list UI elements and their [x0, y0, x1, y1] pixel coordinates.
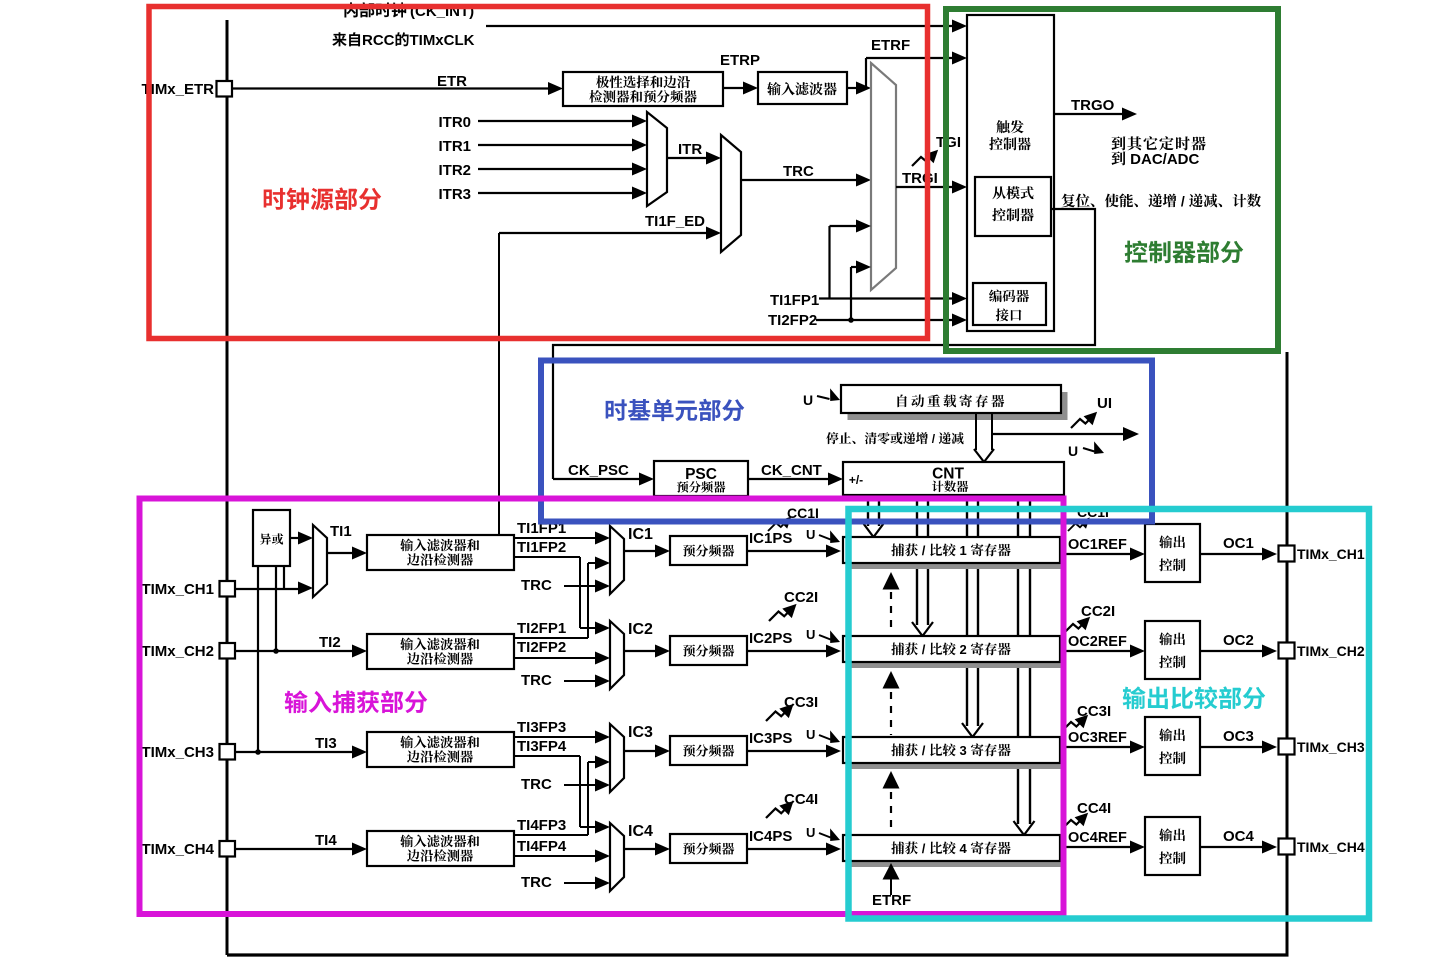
label to DAC ADC [1112, 151, 1126, 165]
wire OC1REF [1060, 553, 1132, 555]
svg-text:OC1: OC1 [1223, 535, 1254, 552]
svg-text:CNT: CNT [932, 466, 964, 483]
svg-text:DAC/ADC: DAC/ADC [1126, 151, 1199, 168]
wire XOR input from CH1 [283, 566, 285, 589]
svg-text:OC3REF: OC3REF [1068, 730, 1127, 746]
wire OC2REF [1060, 650, 1132, 652]
dashed capture arrow CCR4 to CCR3 [890, 792, 892, 833]
wire OC2 [1200, 650, 1264, 652]
svg-text:TI4FP3: TI4FP3 [517, 817, 566, 834]
svg-text:TI1FP1: TI1FP1 [770, 292, 819, 309]
wire TI1FP1 [514, 537, 597, 539]
svg-text:TI1F_ED: TI1F_ED [645, 213, 705, 230]
interrupt arrow CC4I left [766, 801, 794, 818]
frame input capture section [140, 499, 1064, 915]
wire update event UI [992, 433, 1123, 435]
block output control 2 [1145, 621, 1200, 679]
title clock source section [264, 188, 286, 210]
wire CK_INT [486, 25, 954, 27]
svg-text:TI2FP2: TI2FP2 [517, 639, 566, 656]
wire TI1FP1 to trigger mux and encoder [819, 297, 954, 299]
svg-text:TRGI: TRGI [902, 170, 938, 187]
svg-text:TRC: TRC [521, 874, 552, 891]
svg-text:/: / [1177, 193, 1189, 209]
interrupt arrow CC2I right [1064, 617, 1090, 633]
block prescaler 4 [670, 834, 747, 863]
title input capture section [285, 690, 308, 713]
block slave mode controller [975, 177, 1051, 236]
mux trigger selector TRGI [871, 63, 896, 290]
svg-text:ITR1: ITR1 [438, 138, 471, 155]
pin TIMx_CH1 right [1279, 546, 1295, 562]
block capture/compare register 2 [843, 636, 1060, 662]
svg-text:TIMx_CH2: TIMx_CH2 [141, 643, 214, 660]
svg-text:TI1FP2: TI1FP2 [517, 539, 566, 556]
svg-text:U: U [806, 727, 815, 742]
svg-text:IC4: IC4 [628, 823, 653, 840]
interrupt arrow CC1I right [1068, 518, 1090, 532]
wire TI1FP2 cross down [514, 556, 580, 558]
wire ITR2 [478, 168, 634, 170]
wire TRC row1 [564, 585, 597, 587]
wire ITR [667, 157, 708, 159]
frame clock source section [149, 7, 928, 339]
svg-text:TI2: TI2 [319, 634, 341, 651]
block prescaler 2 [670, 636, 747, 665]
block capture/compare register 4 shadow [848, 841, 1065, 867]
pin TIMx_CH4 [220, 841, 236, 857]
junction TI2FP2 [848, 317, 854, 323]
wire CK_PSC [553, 478, 641, 480]
svg-text:U: U [806, 627, 815, 642]
block prescaler 1 [670, 536, 747, 565]
wire TI2 [235, 650, 354, 652]
block capture/compare register 3 shadow [848, 743, 1065, 769]
svg-text:ITR0: ITR0 [438, 114, 471, 131]
block input filter and edge detector 4 [367, 831, 514, 866]
block CNT counter [843, 462, 1064, 495]
wire XOR input from CH3 [257, 566, 259, 752]
svg-text:OC2: OC2 [1223, 632, 1254, 649]
svg-text:4: 4 [956, 841, 970, 856]
svg-text:OC3: OC3 [1223, 728, 1254, 745]
interrupt arrow CC2I left [769, 604, 797, 621]
svg-text:CK_PSC: CK_PSC [568, 462, 629, 479]
svg-text:U: U [1068, 443, 1078, 459]
wire CNT to CCR2 double rail [916, 495, 918, 625]
wire TI1 from CH1 [235, 588, 300, 590]
svg-text:OC4REF: OC4REF [1068, 830, 1127, 846]
svg-text:PSC: PSC [685, 466, 717, 483]
wire auto-reload to CNT double arrow [975, 413, 977, 450]
block trigger controller [967, 15, 1054, 331]
block encoder interface [973, 283, 1046, 325]
title time base section [606, 399, 627, 420]
arrow CNT to CCR4 [1014, 821, 1035, 835]
svg-text:TIMx_CH2: TIMx_CH2 [1297, 643, 1365, 659]
block output control 3 [1145, 717, 1200, 775]
interrupt arrow CC4I right [1062, 813, 1088, 829]
svg-text:TIMx_ETR: TIMx_ETR [141, 81, 214, 98]
pin TIMx_CH4 right [1279, 839, 1295, 855]
wire slave mode controller to counter [553, 209, 1095, 479]
block input filter and edge detector 3 [367, 732, 514, 767]
pin TIMx_CH3 [220, 744, 236, 760]
wire XOR output [290, 537, 300, 539]
svg-text:UI: UI [1097, 395, 1112, 412]
block output control 1 [1145, 524, 1200, 582]
wire ITR0 [478, 120, 634, 122]
pin TIMx_CH1 [220, 581, 236, 597]
svg-text:/: / [918, 543, 929, 558]
wire ITR3 [478, 192, 634, 194]
svg-text:U: U [803, 392, 813, 408]
label internal clock CK_INT [344, 2, 357, 17]
block input filter and edge detector 2 [367, 634, 514, 669]
svg-text:TI1: TI1 [330, 523, 352, 540]
bottom bus line [227, 953, 1289, 956]
wire CNT to CCR3 double rail [966, 495, 968, 726]
wire CNT to CCR4 double rail [1017, 495, 1019, 824]
svg-text:TIMx_CH4: TIMx_CH4 [1297, 839, 1365, 855]
label stop clear or up down [826, 432, 839, 444]
svg-text:TI2FP2: TI2FP2 [768, 312, 817, 329]
svg-text:TI3FP3: TI3FP3 [517, 719, 566, 736]
svg-text:2: 2 [956, 642, 970, 657]
interrupt arrow CC1I left [768, 517, 791, 531]
mux IC4 selector [610, 823, 624, 891]
pin TIMx_CH2 [220, 643, 236, 659]
wire IC3PS [747, 750, 828, 752]
wire ETR [232, 87, 550, 89]
block capture/compare register 3 [843, 737, 1060, 763]
wire TI1F_ED [499, 232, 708, 234]
svg-text:/: / [918, 642, 929, 657]
svg-text:RCC: RCC [362, 32, 395, 49]
wire IC4 [624, 848, 657, 850]
svg-text:TRC: TRC [521, 672, 552, 689]
wire TI1F_ED tap down to TI1 edge detector [498, 233, 500, 538]
pin TIMx_ETR [217, 81, 233, 97]
block input filter and edge detector 1 [367, 535, 514, 570]
wire OC4REF [1060, 846, 1132, 848]
wire CNT to CCR1 double rail [867, 495, 869, 526]
svg-text:IC2: IC2 [628, 621, 653, 638]
svg-text:CC4I: CC4I [1077, 800, 1111, 817]
title controller section [1125, 241, 1148, 263]
wire OC3 [1200, 746, 1264, 748]
arrow CNT to CCR2 [912, 622, 933, 636]
dashed capture arrow CCR3 to CCR2 [890, 692, 892, 735]
interrupt arrow CC3I right [1062, 715, 1088, 731]
wire TI3FP4 cross down [514, 755, 580, 757]
dashed capture arrow CCR2 to CCR1 [890, 592, 892, 634]
wire TRC row4 [564, 882, 597, 884]
block polarity selection edge detector prescaler [563, 72, 723, 106]
svg-text:TRC: TRC [521, 776, 552, 793]
svg-text:CC2I: CC2I [1081, 603, 1115, 620]
block PSC prescaler [654, 461, 748, 496]
label reset enable up down count [1062, 194, 1075, 208]
svg-text:TIMx_CH3: TIMx_CH3 [1297, 739, 1365, 755]
wire XOR input from CH2 [275, 566, 277, 651]
svg-text:TI4FP4: TI4FP4 [517, 838, 567, 855]
wire TRGO [1054, 113, 1124, 115]
svg-text:TIMx_CH1: TIMx_CH1 [1297, 546, 1365, 562]
wire TI4 [235, 848, 354, 850]
wire IC2PS [747, 650, 828, 652]
svg-text:OC4: OC4 [1223, 828, 1255, 845]
block capture/compare register 1 [843, 537, 1060, 563]
wire OC3REF [1060, 746, 1132, 748]
wire ITR1 [478, 144, 634, 146]
block input filter [758, 72, 847, 104]
label to other timers [1112, 136, 1126, 150]
svg-text:U: U [806, 825, 815, 840]
svg-text:ETRP: ETRP [720, 52, 760, 69]
pin TIMx_CH2 right [1279, 643, 1295, 659]
wire IC1 [624, 550, 657, 552]
svg-text:IC2PS: IC2PS [749, 630, 792, 647]
mux TRC selector [721, 135, 741, 252]
block capture/compare register 4 [843, 835, 1060, 861]
svg-text:ITR2: ITR2 [438, 162, 471, 179]
svg-text:IC4PS: IC4PS [749, 828, 792, 845]
wire TRC row2 [564, 680, 597, 682]
svg-text:TI4: TI4 [315, 832, 337, 849]
wire TI2FP2 to trigger mux and encoder [816, 319, 954, 321]
title output compare section [1123, 686, 1146, 709]
wire TI2FP2 [514, 657, 597, 659]
wire OC4 [1200, 846, 1264, 848]
wire IC4PS [747, 848, 828, 850]
mux IC2 selector [610, 621, 624, 689]
interrupt arrow UI [1071, 412, 1097, 428]
svg-text:U: U [806, 527, 815, 542]
block auto-reload register [841, 385, 1061, 413]
label TIMxCLK from RCC [332, 32, 346, 46]
svg-text:TIMx_CH1: TIMx_CH1 [141, 581, 214, 598]
svg-text:TIMx_CH4: TIMx_CH4 [141, 841, 214, 858]
arrow CNT to CCR3 [962, 723, 983, 737]
wire TI1 [327, 552, 354, 554]
svg-text:TRC: TRC [783, 163, 814, 180]
wire IC1PS [747, 550, 828, 552]
svg-text:TRGO: TRGO [1071, 97, 1115, 114]
svg-text:/: / [918, 841, 929, 856]
svg-text:TI3FP4: TI3FP4 [517, 738, 567, 755]
left I/O bus line [226, 20, 229, 955]
mux IC1 selector [610, 526, 624, 594]
svg-text:IC1: IC1 [628, 526, 653, 543]
svg-text:ETR: ETR [437, 73, 467, 90]
svg-text:OC1REF: OC1REF [1068, 537, 1127, 553]
arrow CNT to CCR1 [863, 523, 884, 537]
frame output compare section [849, 509, 1370, 919]
svg-text:IC1PS: IC1PS [749, 530, 792, 547]
svg-text:TRC: TRC [521, 577, 552, 594]
block capture/compare register 2 shadow [848, 642, 1065, 668]
svg-text:IC3PS: IC3PS [749, 730, 792, 747]
svg-text:TIMx_CH3: TIMx_CH3 [141, 744, 214, 761]
svg-text:/: / [928, 432, 938, 446]
mux TI1 selector [313, 525, 327, 597]
svg-text:CK_CNT: CK_CNT [761, 462, 822, 479]
svg-text:TI3: TI3 [315, 735, 337, 752]
mux IC3 selector [610, 724, 624, 792]
right I/O bus line [1286, 352, 1289, 956]
wire TI4FP3 cross up [514, 834, 588, 836]
frame time base section [541, 361, 1152, 522]
svg-text:+/-: +/- [849, 473, 863, 487]
svg-text:IC3: IC3 [628, 724, 653, 741]
svg-text:3: 3 [956, 743, 970, 758]
svg-text:ETRF: ETRF [871, 37, 910, 54]
svg-text:ETRF: ETRF [872, 892, 911, 909]
wire ETRF into CCR4 [890, 879, 892, 895]
wire IC2 [624, 650, 657, 652]
wire TI3FP3 [514, 736, 597, 738]
mux ITR selector [647, 112, 667, 206]
block auto-reload register shadow [848, 392, 1068, 420]
interrupt arrow CC3I left [766, 704, 794, 721]
block capture/compare register 1 shadow [848, 543, 1065, 569]
wire ETRP [723, 87, 745, 89]
wire TRGI [896, 186, 954, 188]
wire IC3 [624, 750, 657, 752]
wire TI2FP1 cross up [514, 637, 588, 639]
interrupt arrow TGI [912, 150, 938, 166]
pin TIMx_CH3 right [1279, 739, 1295, 755]
svg-text:TI2FP1: TI2FP1 [517, 620, 566, 637]
wire OC1 [1200, 553, 1264, 555]
wire CK_CNT [748, 478, 830, 480]
svg-text:ITR3: ITR3 [438, 186, 471, 203]
svg-text:TIMxCLK: TIMxCLK [409, 32, 474, 49]
svg-text:/: / [918, 743, 929, 758]
frame controller section [946, 9, 1278, 351]
wire TI3 [235, 751, 354, 753]
wire TRC [741, 179, 858, 181]
block prescaler 3 [670, 736, 747, 765]
block output control 4 [1145, 817, 1200, 875]
svg-text:ITR: ITR [678, 141, 702, 158]
wire TI4FP4 [514, 855, 597, 857]
block XOR [253, 510, 290, 566]
svg-text:1: 1 [956, 543, 970, 558]
svg-text:OC2REF: OC2REF [1068, 634, 1127, 650]
wire ETRF [847, 87, 858, 89]
svg-text:CC2I: CC2I [784, 589, 818, 606]
wire TRC row3 [564, 784, 597, 786]
